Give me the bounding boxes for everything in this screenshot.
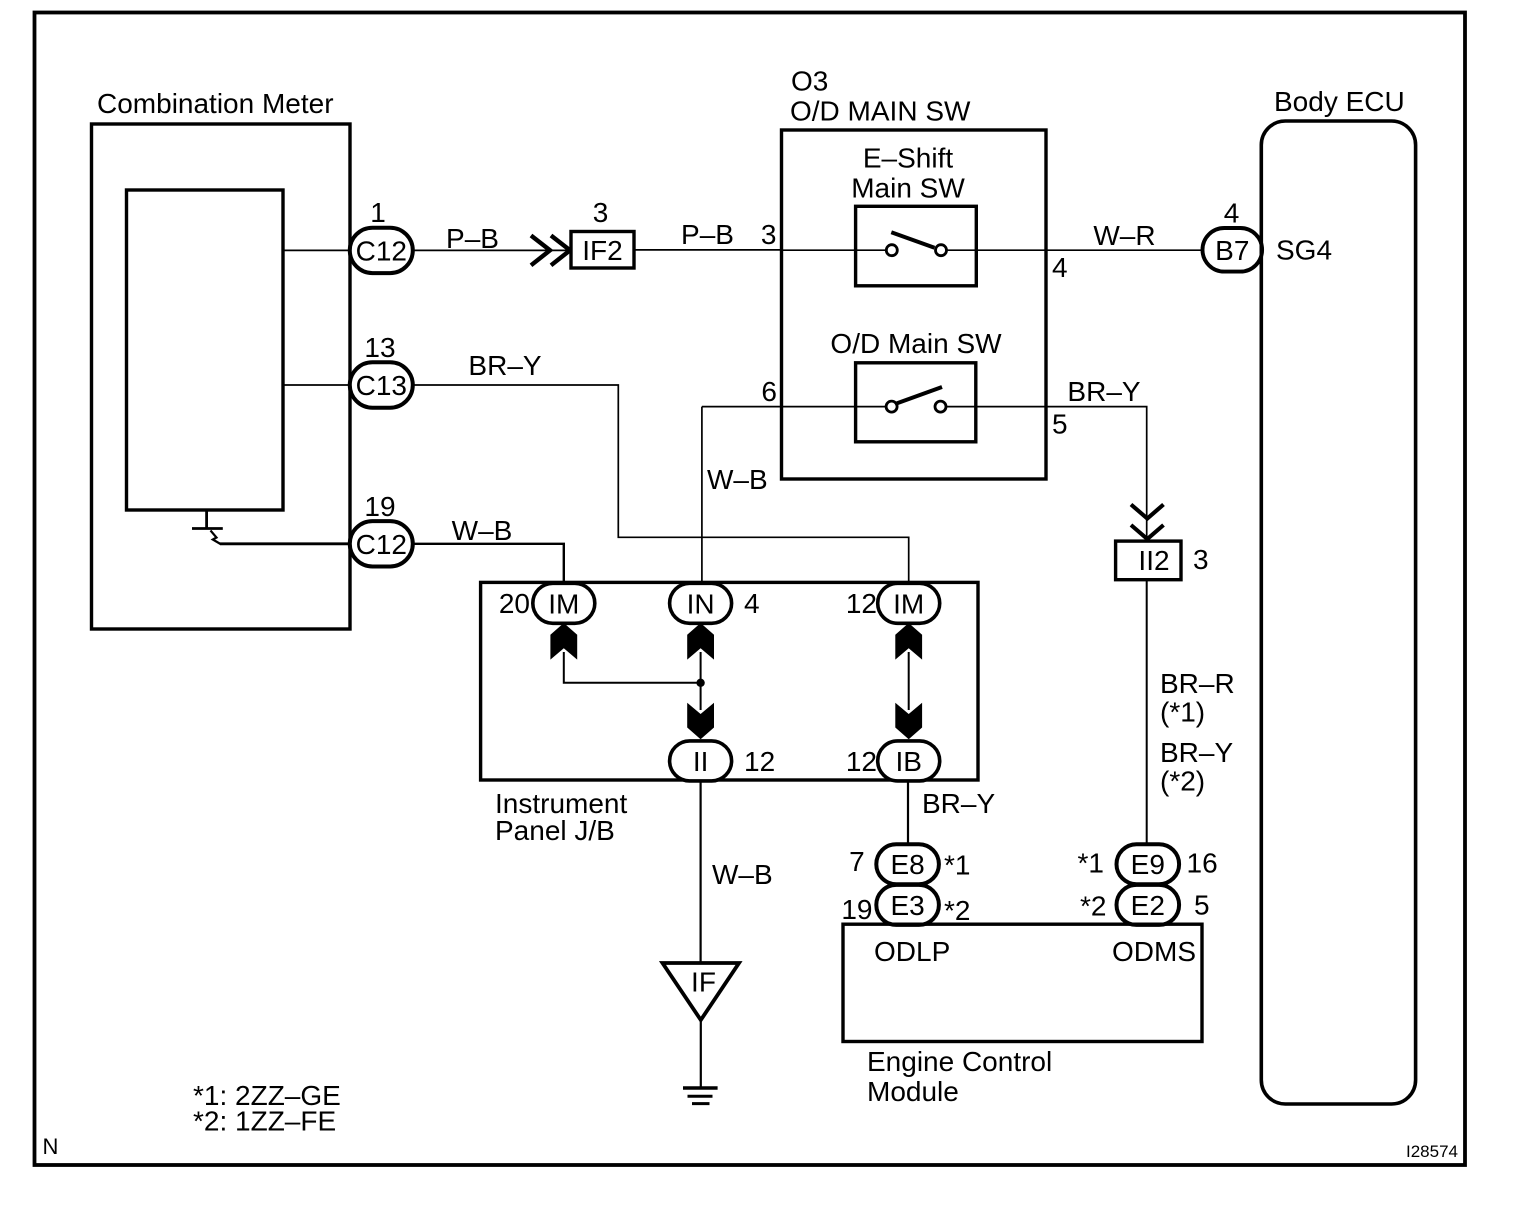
connector E9 (1117, 844, 1180, 884)
J/B terminal IN 4 (670, 583, 732, 623)
connector B7 (1203, 228, 1263, 272)
wire: II2 to E9, BR-R/BR-Y (1146, 580, 1148, 845)
up arrow under IM 12 (895, 623, 922, 660)
wire: inner unit to C13 pin 13 (283, 384, 350, 386)
svg-text:*2: *2 (1080, 891, 1106, 922)
svg-text:12: 12 (846, 746, 877, 777)
svg-text:3: 3 (1193, 544, 1209, 575)
wire: IF to ground (700, 1020, 702, 1087)
wire: II down to IF ground triangle, W-B (699, 780, 701, 963)
connector C12 pin 1 (350, 228, 413, 273)
svg-text:N: N (43, 1134, 59, 1159)
wire: IN arrow through junction to II arrow (700, 652, 702, 710)
connector E8 (876, 844, 939, 884)
down arrow above IB (895, 703, 922, 740)
wire: IM20 arrow to junction (564, 652, 701, 683)
svg-text:I28574: I28574 (1406, 1142, 1458, 1161)
svg-text:*2: *2 (944, 895, 970, 926)
svg-text:6: 6 (761, 376, 777, 407)
O/D Main SW contact right (935, 401, 946, 412)
svg-text:BR–Y: BR–Y (1160, 737, 1233, 768)
svg-text:4: 4 (1224, 198, 1240, 229)
O/D Main SW switch box (856, 363, 976, 442)
connector E3 (876, 885, 939, 925)
ground squiggle inside combination meter (192, 510, 223, 544)
svg-text:BR–Y: BR–Y (468, 350, 541, 381)
svg-text:5: 5 (1052, 409, 1068, 440)
svg-text:W–B: W–B (707, 464, 768, 495)
svg-text:Main SW: Main SW (851, 173, 965, 204)
svg-text:ODMS: ODMS (1112, 936, 1196, 967)
svg-text:20: 20 (499, 588, 530, 619)
svg-text:SG4: SG4 (1276, 235, 1332, 266)
wire: squiggle to C12 pin 19 (220, 542, 350, 545)
connector C13 pin 13 (350, 362, 413, 407)
svg-text:4: 4 (744, 588, 760, 619)
wire: IB down to E8, BR-Y (907, 780, 909, 845)
svg-text:5: 5 (1194, 890, 1210, 921)
wire: inner unit to C12 pin 1 (283, 249, 350, 251)
chevron connector arrows (down) into II2 (1131, 505, 1164, 540)
svg-text:E3: E3 (890, 890, 924, 921)
svg-text:IM: IM (893, 588, 924, 619)
connector IF2 (571, 232, 634, 269)
svg-text:IM: IM (548, 588, 579, 619)
wire: pin 6 down to J/B IN, W-B (701, 407, 703, 583)
svg-text:19: 19 (364, 491, 395, 522)
svg-text:13: 13 (364, 332, 395, 363)
E-Shift Main SW label (851, 143, 965, 204)
Body ECU box (1261, 121, 1415, 1104)
wire: C13 BR-Y route to J/B IM 12 (413, 385, 909, 582)
E-Shift switch contact right (936, 245, 947, 256)
J/B terminal IM 12 (878, 583, 940, 623)
svg-text:W–B: W–B (712, 859, 773, 890)
svg-text:12: 12 (744, 746, 775, 777)
wire: E-Shift pin 4 to B7, W-R (947, 249, 1204, 251)
combination meter inner unit box (127, 190, 284, 510)
engine notes (193, 1080, 341, 1137)
ground symbol (683, 1088, 718, 1104)
Instrument Panel J/B box (481, 582, 978, 780)
wire label BR-R (*1) BR-Y (*2) (1160, 668, 1235, 797)
svg-text:C12: C12 (356, 235, 407, 266)
svg-text:BR–R: BR–R (1160, 668, 1235, 699)
E-Shift switch blade (891, 232, 934, 248)
O/D Main SW contact left (886, 401, 897, 412)
svg-text:7: 7 (849, 846, 865, 877)
combination meter box (92, 124, 351, 629)
connector C12 pin 19 (350, 521, 413, 566)
svg-text:*1: *1 (944, 850, 970, 881)
svg-text:4: 4 (1052, 252, 1068, 283)
svg-text:ODLP: ODLP (874, 936, 950, 967)
svg-text:B7: B7 (1215, 235, 1249, 266)
svg-text:Module: Module (867, 1076, 959, 1107)
svg-text:O/D Main SW: O/D Main SW (830, 328, 1002, 359)
svg-text:16: 16 (1187, 848, 1218, 879)
svg-text:IF: IF (691, 967, 716, 998)
svg-text:3: 3 (593, 197, 609, 228)
Engine Control Module box (843, 924, 1202, 1041)
up arrow under IM 20 (550, 623, 577, 660)
svg-text:IF2: IF2 (582, 235, 622, 266)
ground triangle IF (663, 963, 740, 1020)
wire into E-Shift switch (782, 249, 887, 251)
wire: pin 6 into O/D Main SW (702, 406, 886, 408)
J/B terminal II 12 (670, 741, 732, 781)
junction node (696, 679, 704, 687)
svg-text:W–B: W–B (452, 515, 513, 546)
svg-text:C12: C12 (356, 529, 407, 560)
wire: IM12 arrow to IB arrow (908, 652, 910, 710)
connector E2 (1117, 885, 1180, 925)
svg-text:(*1): (*1) (1160, 697, 1205, 728)
O/D MAIN SW box (782, 130, 1047, 479)
Instrument Panel J/B label (495, 788, 627, 846)
svg-text:Combination Meter: Combination Meter (97, 88, 334, 119)
E-Shift switch contact left (886, 245, 897, 256)
wire: C12 pin1 to chevrons, P-B (413, 249, 571, 251)
down arrow above II (687, 703, 714, 740)
E-Shift switch box (856, 206, 977, 285)
svg-text:(*2): (*2) (1160, 766, 1205, 797)
svg-text:P–B: P–B (681, 219, 734, 250)
svg-text:3: 3 (761, 219, 777, 250)
svg-text:E9: E9 (1131, 849, 1165, 880)
svg-text:*2: 1ZZ–FE: *2: 1ZZ–FE (193, 1106, 336, 1137)
connector II2 (1116, 541, 1181, 580)
svg-text:BR–Y: BR–Y (922, 788, 995, 819)
svg-text:1: 1 (370, 197, 386, 228)
svg-text:Engine Control: Engine Control (867, 1046, 1052, 1077)
svg-text:BR–Y: BR–Y (1067, 376, 1140, 407)
svg-text:IB: IB (895, 746, 921, 777)
wire: O/D Main SW pin 5, BR-Y (946, 407, 1147, 541)
J/B terminal IB 12 (878, 741, 940, 781)
wire: C12 pin19 W-B to J/B IM 20 (413, 544, 564, 583)
svg-text:12: 12 (846, 588, 877, 619)
svg-text:O/D MAIN SW: O/D MAIN SW (790, 96, 971, 127)
up arrow under IN (687, 623, 714, 660)
svg-text:Body ECU: Body ECU (1274, 86, 1405, 117)
svg-text:C13: C13 (356, 370, 407, 401)
svg-text:E2: E2 (1131, 890, 1165, 921)
svg-text:IN: IN (687, 588, 715, 619)
svg-text:E8: E8 (890, 849, 924, 880)
svg-text:II: II (693, 746, 709, 777)
svg-text:II2: II2 (1138, 545, 1169, 576)
svg-text:E–Shift: E–Shift (863, 143, 953, 174)
Engine Control Module label (867, 1046, 1052, 1107)
svg-text:W–R: W–R (1093, 220, 1155, 251)
svg-text:19: 19 (841, 894, 872, 925)
O/D Main SW blade (895, 387, 942, 404)
svg-text:Panel J/B: Panel J/B (495, 815, 615, 846)
svg-text:P–B: P–B (446, 223, 499, 254)
J/B terminal IM 20 (533, 583, 595, 623)
wire: IF2 to O/D MAIN SW pin 3, P-B (634, 249, 782, 251)
svg-text:*1: *1 (1078, 848, 1104, 879)
svg-text:O3: O3 (791, 66, 828, 97)
chevron connector arrows (right) (531, 236, 570, 266)
